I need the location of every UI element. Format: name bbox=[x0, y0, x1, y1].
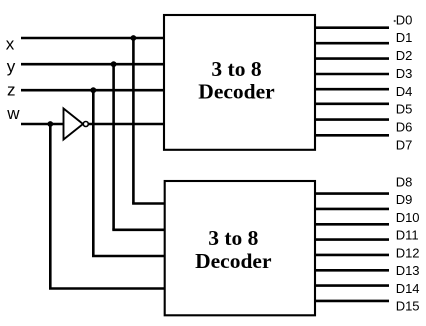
svg-text:D7: D7 bbox=[396, 137, 413, 152]
node junction on z wire bbox=[90, 87, 96, 93]
wire y branch to decoder U2 bbox=[112, 229, 165, 232]
svg-text:y: y bbox=[7, 57, 16, 76]
wire x branch vertical bbox=[132, 38, 135, 204]
wire output D14 bbox=[315, 284, 389, 287]
wire output D1 bbox=[315, 42, 389, 45]
wire output D10 bbox=[315, 223, 389, 226]
svg-text:z: z bbox=[7, 80, 16, 99]
wire input w to inverter bbox=[21, 123, 64, 126]
decoder U2 box bbox=[165, 181, 315, 315]
wire output D6 bbox=[315, 118, 389, 121]
svg-text:Decoder: Decoder bbox=[198, 80, 275, 104]
wire output D2 bbox=[315, 57, 389, 60]
wire output D11 bbox=[315, 238, 389, 241]
svg-text:D8: D8 bbox=[396, 174, 413, 189]
svg-text:D2: D2 bbox=[396, 48, 413, 63]
svg-text:D15: D15 bbox=[396, 299, 420, 314]
svg-text:D9: D9 bbox=[396, 192, 413, 207]
svg-text:3 to 8: 3 to 8 bbox=[208, 226, 258, 250]
svg-text:D5: D5 bbox=[396, 102, 413, 117]
wire output D9 bbox=[315, 208, 389, 211]
svg-text:D6: D6 bbox=[396, 119, 413, 134]
svg-text:w: w bbox=[6, 104, 20, 123]
svg-text:3 to 8: 3 to 8 bbox=[211, 57, 261, 81]
wire z branch vertical bbox=[92, 90, 95, 256]
wire input x horizontal bbox=[21, 37, 164, 40]
svg-text:D14: D14 bbox=[396, 281, 420, 296]
inverter U3 bubble bbox=[83, 122, 88, 127]
inverter U3 triangle bbox=[64, 109, 84, 140]
node junction on w wire bbox=[47, 121, 53, 127]
svg-text:D10: D10 bbox=[396, 210, 420, 225]
wire w branch vertical bbox=[49, 124, 52, 289]
svg-text:D4: D4 bbox=[396, 84, 413, 99]
svg-text:x: x bbox=[6, 34, 15, 53]
wire z branch to decoder U2 bbox=[92, 255, 165, 258]
wire w branch to decoder U2 bbox=[49, 287, 165, 290]
svg-text:D3: D3 bbox=[396, 66, 413, 81]
svg-text:D1: D1 bbox=[396, 30, 413, 45]
wire output D13 bbox=[315, 269, 389, 272]
svg-text:D13: D13 bbox=[396, 263, 420, 278]
svg-text:D12: D12 bbox=[396, 245, 420, 260]
wire x branch to decoder U2 bbox=[132, 202, 165, 205]
svg-text:D0: D0 bbox=[396, 12, 413, 27]
stray dot before D0 bbox=[394, 20, 396, 22]
wire output D3 bbox=[315, 73, 389, 76]
node junction on y wire bbox=[111, 61, 117, 67]
wire input y horizontal bbox=[21, 63, 164, 66]
wire inverter output to decoder U1 bbox=[88, 123, 164, 126]
wire output D8 bbox=[315, 192, 389, 195]
svg-text:D11: D11 bbox=[396, 228, 419, 243]
svg-text:Decoder: Decoder bbox=[195, 249, 272, 273]
node junction on x wire bbox=[131, 35, 137, 41]
wire output D12 bbox=[315, 254, 389, 257]
wire output D5 bbox=[315, 103, 389, 106]
wire output D7 bbox=[315, 134, 389, 137]
wire output D15 bbox=[315, 300, 389, 303]
decoder U1 box bbox=[164, 15, 315, 150]
wire input z horizontal bbox=[21, 89, 164, 92]
wire y branch vertical bbox=[112, 64, 115, 230]
wire output D0 bbox=[315, 26, 389, 29]
wire output D4 bbox=[315, 88, 389, 91]
